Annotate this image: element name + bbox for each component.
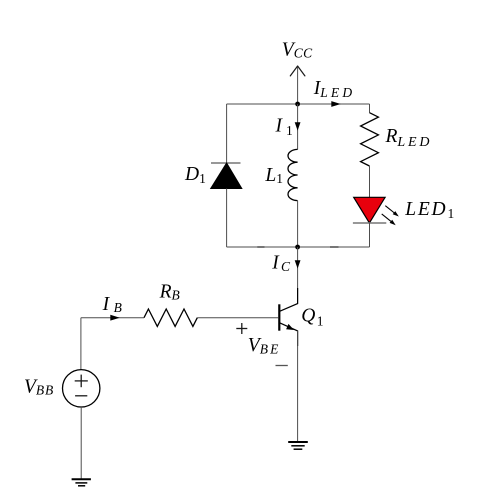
source VBB xyxy=(62,370,99,407)
diode D1 cathode bar xyxy=(211,162,241,164)
LED light arrow 2 xyxy=(382,214,396,225)
wire overlap mark left xyxy=(257,246,264,248)
node Vcc arrow xyxy=(290,66,305,76)
wire VBB top xyxy=(80,318,82,370)
wire emitter xyxy=(297,331,299,442)
diode D1 xyxy=(211,163,242,189)
svg-text:LED1: LED1 xyxy=(404,199,454,221)
source VBB plus xyxy=(75,375,88,388)
arrow IB xyxy=(110,315,120,321)
wire top horizontal xyxy=(227,103,370,105)
transistor Q1 emitter lead xyxy=(280,323,298,346)
wire overlap mark right xyxy=(330,246,339,248)
wire right branch bottom xyxy=(369,223,371,247)
arrow ILED xyxy=(331,101,341,107)
wire left branch lower xyxy=(226,189,228,248)
wire base left segment xyxy=(81,317,144,319)
source VBB minus xyxy=(75,395,87,397)
wire left branch upper xyxy=(226,104,228,163)
wire collector xyxy=(297,247,299,304)
LED light arrow 1 xyxy=(385,206,399,217)
label + (VBE) xyxy=(236,323,247,334)
resistor RLED xyxy=(361,113,379,166)
transistor Q1 base bar xyxy=(278,304,280,330)
arrow IC xyxy=(295,260,301,268)
transistor Q1 emitter arrow xyxy=(286,324,294,330)
ground emitter xyxy=(288,442,308,449)
wire right branch mid xyxy=(369,166,371,197)
arrow I1 xyxy=(295,122,301,130)
LED cathode bar xyxy=(353,222,386,224)
wire bottom horizontal xyxy=(227,246,370,248)
wire right branch top xyxy=(369,104,371,113)
wire base right segment xyxy=(197,317,278,319)
LED LED1 xyxy=(354,197,385,223)
node junction top xyxy=(295,102,300,107)
resistor RB xyxy=(144,309,197,326)
ground VBB xyxy=(72,479,91,486)
wire VBB bottom xyxy=(80,407,82,479)
wire middle upper xyxy=(297,104,299,149)
node junction bottom xyxy=(295,245,300,250)
wire Vcc stem xyxy=(297,67,299,105)
label - (VBE) xyxy=(276,365,288,367)
transistor Q1 collector lead xyxy=(280,288,298,311)
inductor L1 xyxy=(288,149,298,200)
wire middle lower xyxy=(297,201,299,247)
